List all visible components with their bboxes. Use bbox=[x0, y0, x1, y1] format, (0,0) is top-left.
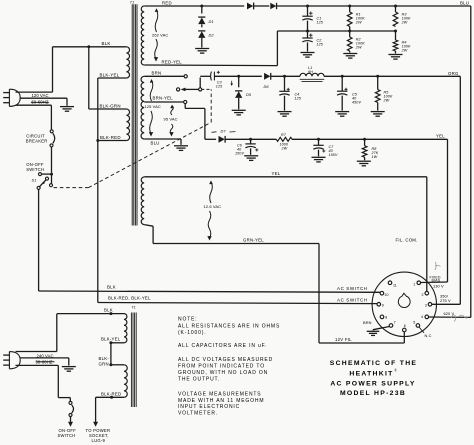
label BRN-YEL bbox=[153, 96, 174, 101]
svg-text:262 VAC: 262 VAC bbox=[152, 33, 168, 38]
ground under R5 bbox=[371, 112, 385, 117]
svg-text:125: 125 bbox=[317, 20, 324, 24]
diode D4 bbox=[270, 3, 276, 9]
resistor R8 bbox=[362, 139, 379, 159]
resistor R1 bbox=[347, 6, 365, 27]
capacitor C6 bbox=[235, 139, 258, 155]
svg-text:GROUND, WITH NO LOAD ON: GROUND, WITH NO LOAD ON bbox=[178, 370, 268, 376]
svg-text:BLK: BLK bbox=[104, 308, 113, 313]
svg-text:450V: 450V bbox=[352, 100, 361, 104]
wire YEL bias down right edge bbox=[447, 139, 449, 282]
resistor R2 bbox=[347, 31, 365, 51]
wire D3-D4 bbox=[254, 5, 269, 7]
wire C2 to ground bbox=[307, 42, 309, 51]
diode D1 bbox=[198, 6, 213, 24]
svg-text:120 VAC: 120 VAC bbox=[32, 93, 49, 98]
svg-text:1W: 1W bbox=[372, 155, 378, 159]
label BLK-RED BLK-YEL bbox=[108, 295, 151, 300]
socket pin 6 bbox=[403, 324, 407, 332]
connector P1 120VAC plug bbox=[3, 89, 20, 106]
pencil mark near FIL COM wire bbox=[435, 262, 441, 270]
diode D3 bbox=[247, 3, 254, 10]
svg-text:12.6 VAC: 12.6 VAC bbox=[204, 204, 222, 209]
ground under R8 bbox=[357, 161, 371, 166]
node D5 junction bbox=[237, 75, 240, 78]
wire C5 to ground bbox=[341, 96, 343, 111]
node C7 junction bbox=[317, 138, 320, 141]
svg-text:D1: D1 bbox=[209, 19, 214, 24]
wire D5 to ground bbox=[238, 98, 240, 109]
resistor R3 bbox=[393, 6, 411, 27]
ground BLU bbox=[174, 146, 188, 151]
svg-text:FIL. COM.: FIL. COM. bbox=[396, 237, 418, 242]
svg-text:S1: S1 bbox=[32, 177, 37, 182]
ground at 240 plug bbox=[62, 367, 76, 372]
svg-text:BREAKER: BREAKER bbox=[26, 139, 48, 144]
title AC POWER SUPPLY bbox=[330, 381, 415, 388]
wire C4 to ground bbox=[284, 96, 286, 111]
node C1-C2 mid bbox=[306, 30, 309, 33]
wire BLU to ground bbox=[144, 139, 181, 145]
socket pin 11 bbox=[388, 281, 397, 287]
label GRN-YEL bbox=[243, 237, 264, 242]
wire BRN to selector contact bbox=[144, 70, 184, 76]
svg-text:LUG-9: LUG-9 bbox=[92, 438, 106, 443]
transformer T1 core (240V drawing) bbox=[131, 306, 136, 408]
socket pin 3 bbox=[425, 303, 432, 308]
wire BLK-RED down to arrow bbox=[95, 397, 97, 423]
label FIXED BIAS 130V bbox=[430, 276, 444, 289]
wire RED-YEL riser bbox=[276, 31, 278, 66]
wire R4 to ground bbox=[395, 51, 397, 54]
measure arrow 125VAC up bbox=[150, 79, 154, 101]
wire pin7 to ground BRN bbox=[363, 320, 390, 331]
linkage dashed diagonal bbox=[89, 122, 212, 187]
selector contact BRN-YEL bbox=[184, 100, 187, 103]
svg-text:SCHEMATIC OF THE: SCHEMATIC OF THE bbox=[330, 360, 418, 367]
wire BLK-YEL bus down bbox=[97, 78, 99, 303]
wire C1 to midbus bbox=[307, 21, 309, 31]
svg-text:T1: T1 bbox=[130, 0, 134, 4]
wire BLK-RED (primary) bbox=[98, 135, 127, 141]
svg-text:MODEL HP-23B: MODEL HP-23B bbox=[340, 390, 406, 397]
wire equalizer midbus bbox=[277, 30, 395, 32]
svg-text:3: 3 bbox=[425, 304, 427, 308]
svg-text:®: ® bbox=[394, 369, 397, 373]
capacitor C4 bbox=[279, 76, 302, 100]
wire pin4 to BLU 620V bbox=[429, 316, 471, 318]
node C6 junction bbox=[249, 138, 252, 141]
svg-text:VOLTAGE MEASUREMENTS: VOLTAGE MEASUREMENTS bbox=[178, 391, 262, 397]
wire R5 to ground bbox=[377, 103, 379, 111]
wire 240 plug hot up to BLK bbox=[16, 314, 57, 352]
svg-text:GRN-YEL: GRN-YEL bbox=[243, 237, 264, 242]
label 350/275 V bbox=[440, 294, 451, 304]
socket pin 7 bbox=[389, 321, 395, 328]
svg-text:THE OUTPUT.: THE OUTPUT. bbox=[178, 376, 220, 382]
wire BLK to BLK-GRN tie bbox=[89, 47, 127, 109]
wire R8 to ground bbox=[364, 157, 366, 160]
node BLK junction bbox=[87, 45, 90, 48]
wire YEL fil-common bbox=[144, 171, 427, 177]
svg-text:2W: 2W bbox=[355, 21, 362, 25]
socket pin 4 bbox=[421, 315, 429, 319]
socket pin 9 bbox=[377, 303, 384, 308]
svg-text:2W: 2W bbox=[401, 21, 408, 25]
svg-text:130 V: 130 V bbox=[433, 283, 444, 288]
wire plug hot to BLK bus bbox=[16, 91, 53, 93]
label AC SWITCH (pin9) bbox=[337, 298, 368, 303]
svg-text:50-60HZ: 50-60HZ bbox=[32, 99, 49, 104]
ground under C7 bbox=[312, 157, 326, 162]
wire RED (top) bbox=[144, 0, 202, 6]
pencil scribble near pin 4 bbox=[451, 315, 468, 322]
measure arrow 125VAC down bbox=[149, 111, 153, 137]
svg-text:INPUT ELECTRONIC: INPUT ELECTRONIC bbox=[178, 404, 240, 410]
svg-text:9: 9 bbox=[382, 304, 384, 308]
wire BLK bus down to plug bbox=[52, 47, 54, 92]
svg-text:D5: D5 bbox=[246, 92, 252, 97]
label BLK-GRN (240V) bbox=[99, 356, 110, 366]
ground under C6 bbox=[244, 156, 258, 161]
wire C6 to ground bbox=[250, 148, 252, 155]
svg-text:11: 11 bbox=[393, 283, 397, 287]
capacitor C2 bbox=[302, 31, 324, 46]
ground chassis at plug bbox=[60, 107, 74, 112]
svg-text:6: 6 bbox=[404, 324, 406, 328]
inductor L1 bbox=[300, 66, 325, 81]
wire ORG down right edge bbox=[459, 76, 461, 304]
svg-text:BLK-RED: BLK-RED bbox=[100, 135, 121, 140]
label 125 VAC bbox=[145, 104, 161, 109]
svg-text:BLK-YEL: BLK-YEL bbox=[100, 73, 120, 78]
wire to D6 bbox=[239, 75, 262, 77]
svg-text:ORG: ORG bbox=[448, 71, 459, 76]
T1 240V winding 1 (BLK to BLK-YEL) bbox=[124, 314, 127, 343]
label 95 VAC bbox=[164, 116, 178, 121]
svg-text:RED-YEL: RED-YEL bbox=[162, 59, 183, 64]
ground under D2 bbox=[195, 49, 209, 54]
wire D7 to C6 bbox=[225, 138, 250, 140]
svg-text:SWITCH: SWITCH bbox=[58, 433, 76, 438]
svg-text:N.C: N.C bbox=[425, 333, 432, 338]
svg-text:BLK-RED, BLK-YEL: BLK-RED, BLK-YEL bbox=[108, 295, 151, 300]
wire 12V FIL up to pin 6 bbox=[403, 332, 405, 343]
svg-text:125: 125 bbox=[216, 84, 223, 88]
node R3 top bbox=[394, 5, 397, 8]
node C1 top bbox=[306, 5, 309, 8]
label FIL. COM. bbox=[396, 237, 418, 242]
svg-text:BRN: BRN bbox=[363, 320, 372, 325]
wire D4 to BLU corner bbox=[277, 5, 471, 7]
wire RED to D3 bbox=[202, 5, 244, 7]
switch S1b selector wiper bbox=[177, 88, 202, 92]
svg-text:2W: 2W bbox=[383, 98, 390, 102]
wire GRN-YEL down to 12V FIL bbox=[319, 244, 404, 344]
label 12V FIL bbox=[335, 337, 352, 342]
wire R7 to YEL corner bbox=[292, 138, 448, 140]
ground under D5 bbox=[232, 110, 246, 115]
svg-text:2: 2 bbox=[422, 293, 424, 297]
socket pin 2 bbox=[422, 291, 429, 296]
label 120 VAC 50-60HZ bbox=[32, 93, 49, 104]
node R1 top bbox=[348, 5, 351, 8]
ground under R2 bbox=[343, 54, 357, 59]
T1 secondary winding 262VAC (RED to RED-YEL) bbox=[141, 6, 144, 65]
ground under C2 bbox=[301, 53, 315, 58]
wire D2 to ground bbox=[201, 38, 203, 48]
arrow to power socket (BLK-RED side) bbox=[93, 422, 98, 427]
label 12.6 VAC bbox=[204, 204, 222, 209]
label BLK (AC switch line) bbox=[107, 285, 116, 290]
arrow to power socket (switch side) bbox=[68, 422, 73, 427]
svg-text:MADE WITH AN 11 MEGOHM: MADE WITH AN 11 MEGOHM bbox=[178, 398, 264, 404]
svg-text:2W: 2W bbox=[355, 46, 362, 50]
title HEATHKIT bbox=[349, 369, 397, 378]
svg-text:BLK: BLK bbox=[107, 285, 116, 290]
wire BLU down right edge bbox=[470, 6, 472, 317]
socket center key bbox=[398, 293, 410, 307]
measure arrow 262VAC down bbox=[154, 39, 158, 62]
node BLK-RED junction bbox=[96, 139, 99, 142]
svg-text:FROM POINT INDICATED TO: FROM POINT INDICATED TO bbox=[178, 364, 265, 370]
svg-text:7: 7 bbox=[394, 321, 396, 325]
voltage probe arrow at D5 node bbox=[230, 81, 233, 86]
capacitor C7 bbox=[313, 139, 338, 157]
wire breaker to S1 bbox=[51, 147, 53, 173]
svg-text:BLU: BLU bbox=[460, 0, 469, 5]
socket pin 5 bbox=[413, 321, 420, 328]
node D1 junction bbox=[200, 5, 203, 8]
label N.C pin5 bbox=[419, 327, 432, 338]
svg-text:BRN-YEL: BRN-YEL bbox=[153, 96, 174, 101]
wire BLK-RED (240V) bbox=[96, 392, 124, 399]
label 620 V bbox=[444, 311, 455, 316]
transformer T1 core (top) bbox=[130, 0, 137, 225]
measure arrow 262VAC up bbox=[155, 8, 159, 32]
connector P2 240VAC plug bbox=[3, 352, 20, 369]
measure arrow 95VAC down bbox=[169, 124, 173, 137]
wire BLK-YEL (240V) bbox=[101, 337, 124, 345]
svg-text:RED: RED bbox=[162, 0, 172, 5]
socket pin 10 bbox=[380, 291, 388, 296]
svg-text:D7: D7 bbox=[221, 129, 227, 134]
switch S1 on-off bbox=[26, 162, 53, 190]
svg-text:125: 125 bbox=[295, 96, 302, 100]
wire D6 to L1 bbox=[271, 75, 300, 77]
svg-text:BLK-GRN: BLK-GRN bbox=[100, 104, 121, 109]
svg-text:YEL: YEL bbox=[272, 171, 281, 176]
label TO POWER SOCKET LUG-9 bbox=[86, 428, 111, 443]
wire 240 plug neutral to ground bbox=[20, 358, 69, 366]
svg-text:SWITCH: SWITCH bbox=[26, 167, 44, 172]
svg-text:BRN: BRN bbox=[152, 70, 162, 75]
wire 240 plug to switch bbox=[16, 362, 71, 401]
label ON-OFF SWITCH (240V) bbox=[58, 428, 77, 438]
T1 primary winding 2 (BLK-GRN to BLK-RED) bbox=[126, 109, 129, 141]
T1 primary winding 1 (BLK to BLK-YEL) bbox=[126, 47, 129, 78]
wire L1 to ORG corner bbox=[324, 75, 460, 77]
svg-text:NOTE:: NOTE: bbox=[178, 317, 198, 323]
node R3-R4 mid bbox=[394, 30, 397, 33]
svg-text:BIAS: BIAS bbox=[432, 279, 441, 283]
selector contact BRN bbox=[184, 75, 187, 78]
svg-text:12V FIL: 12V FIL bbox=[335, 337, 352, 342]
label YEL (bias lead) bbox=[436, 134, 445, 139]
svg-text:D6: D6 bbox=[264, 84, 270, 89]
node BLK-GRN (240V) bbox=[109, 363, 124, 366]
T1 240V winding 2 (BLK-GRN to BLK-RED) bbox=[124, 365, 127, 398]
capacitor C5 bbox=[337, 76, 361, 104]
svg-text:1: 1 bbox=[413, 282, 415, 286]
svg-text:6H: 6H bbox=[308, 70, 313, 74]
capacitor C1 bbox=[302, 6, 324, 24]
label BLK-GRN bbox=[100, 104, 121, 109]
wire series link BLK-YEL to BLK-GRN bbox=[110, 343, 112, 365]
svg-text:D2: D2 bbox=[209, 32, 215, 37]
wire RED-YEL bbox=[144, 64, 277, 67]
svg-text:5: 5 bbox=[413, 321, 415, 325]
svg-text:2W: 2W bbox=[281, 147, 288, 151]
svg-text:10: 10 bbox=[385, 293, 389, 297]
wire BLK-YEL (primary) bbox=[98, 73, 127, 79]
svg-text:ALL DC VOLTAGES MEASURED: ALL DC VOLTAGES MEASURED bbox=[178, 357, 273, 363]
svg-text:BLK: BLK bbox=[102, 41, 111, 46]
wire S2 to arrow bbox=[70, 417, 72, 424]
node R8 junction bbox=[363, 138, 366, 141]
ground under C4 bbox=[278, 112, 292, 117]
wire BLK (240V) bbox=[57, 308, 124, 316]
wire R1 to midbus bbox=[349, 27, 351, 32]
resistor R5 bbox=[375, 76, 393, 102]
label ORG bbox=[448, 71, 459, 76]
svg-text:ALL RESISTANCES ARE IN OHMS: ALL RESISTANCES ARE IN OHMS bbox=[178, 323, 280, 329]
wire S1 down to AC-switch line BLK bbox=[39, 189, 381, 292]
svg-text:8: 8 bbox=[385, 316, 387, 320]
svg-text:AC SWITCH: AC SWITCH bbox=[337, 286, 368, 291]
capacitor C3 (series) bbox=[210, 71, 239, 89]
svg-text:BLU: BLU bbox=[151, 140, 160, 145]
wire GRN-YEL bbox=[144, 225, 319, 244]
svg-text:2W: 2W bbox=[401, 49, 408, 53]
svg-text:R7: R7 bbox=[281, 133, 287, 137]
ground under R4 bbox=[389, 55, 403, 60]
resistor R4 bbox=[393, 31, 411, 53]
measure arrow 12.6VAC down bbox=[207, 211, 211, 241]
svg-text:AC SWITCH: AC SWITCH bbox=[337, 298, 368, 303]
switch S2 on-off (240V) bbox=[69, 401, 74, 416]
svg-text:T1: T1 bbox=[132, 306, 136, 310]
linkage S1 dashed horizontal bbox=[54, 187, 89, 189]
resistor R7 (series) bbox=[276, 133, 292, 151]
svg-text:GRN: GRN bbox=[99, 361, 109, 366]
svg-text:(K-1000).: (K-1000). bbox=[178, 330, 207, 336]
wire BRN-YEL to selector contact bbox=[144, 101, 183, 103]
label AC SWITCH (pin10) bbox=[337, 286, 368, 291]
wire pin1 to fixed bias bbox=[421, 281, 448, 284]
svg-text:BLK-YEL: BLK-YEL bbox=[101, 337, 121, 342]
measure arrow 12.6VAC up bbox=[209, 181, 213, 204]
wire BLK (primary) bbox=[53, 41, 127, 47]
svg-text:HEATHKIT: HEATHKIT bbox=[349, 370, 393, 377]
label RED-YEL bbox=[162, 59, 183, 64]
wire selector common up bbox=[200, 76, 209, 88]
wire plug to circuit breaker bbox=[16, 102, 52, 129]
T1 secondary winding 125/95VAC (BRN to BLU) bbox=[141, 76, 144, 139]
linkage dashed vertical to selector switch bbox=[202, 89, 211, 122]
svg-text:4: 4 bbox=[421, 315, 423, 319]
svg-text:125: 125 bbox=[317, 42, 324, 46]
svg-text:YEL: YEL bbox=[436, 134, 445, 139]
T1 secondary winding 12.6VAC (YEL to GRN-YEL) bbox=[141, 177, 144, 225]
ground under C5 bbox=[335, 112, 349, 117]
socket pin 8 bbox=[380, 315, 387, 319]
svg-text:AC POWER SUPPLY: AC POWER SUPPLY bbox=[330, 381, 415, 388]
node R1-R2 mid bbox=[348, 30, 351, 33]
diode D2 bbox=[198, 24, 214, 38]
label BLU (620V lead) bbox=[460, 0, 469, 5]
wire plug neutral to ground bbox=[20, 98, 67, 106]
diode D6 bbox=[264, 73, 271, 89]
note text block bbox=[178, 317, 280, 417]
node C5 junction bbox=[341, 75, 344, 78]
ground at pin7 bbox=[367, 331, 380, 335]
wire BLK-RED BLK-YEL to AC switch bbox=[98, 303, 377, 304]
svg-text:ALL CAPACITORS ARE IN uF.: ALL CAPACITORS ARE IN uF. bbox=[178, 343, 267, 349]
circuit breaker CB1 bbox=[26, 130, 55, 147]
measure arrow 95VAC up bbox=[170, 105, 174, 115]
wire FIL COM down to pin 2 bbox=[426, 177, 428, 292]
diode D5 bbox=[235, 76, 252, 98]
svg-text:275 V: 275 V bbox=[440, 298, 451, 303]
svg-text:BLK-RED: BLK-RED bbox=[101, 392, 121, 397]
socket pin 1 bbox=[413, 281, 420, 286]
svg-text:95 VAC: 95 VAC bbox=[164, 116, 178, 121]
title MODEL HP-23B bbox=[340, 390, 406, 397]
svg-text:125 VAC: 125 VAC bbox=[145, 104, 161, 109]
node R5 junction bbox=[376, 75, 379, 78]
socket SO1 outline bbox=[372, 272, 436, 336]
diode D7 bbox=[212, 129, 236, 143]
label 262 VAC bbox=[152, 33, 168, 38]
node C4 junction bbox=[283, 75, 286, 78]
wire R2 to ground bbox=[349, 51, 351, 53]
wire pin3 to ORG 350/275V bbox=[432, 303, 461, 305]
wire C6 row to R7 bbox=[251, 138, 277, 140]
title SCHEMATIC OF THE bbox=[330, 360, 418, 367]
wire C7 to ground bbox=[318, 150, 320, 157]
svg-text:150V: 150V bbox=[329, 153, 338, 157]
svg-text:150V: 150V bbox=[235, 152, 244, 156]
svg-text:VOLTMETER.: VOLTMETER. bbox=[178, 411, 218, 417]
label 240 VAC 50-60HZ bbox=[36, 353, 54, 364]
wire BRN-YEL tap to D7 bbox=[185, 104, 216, 140]
